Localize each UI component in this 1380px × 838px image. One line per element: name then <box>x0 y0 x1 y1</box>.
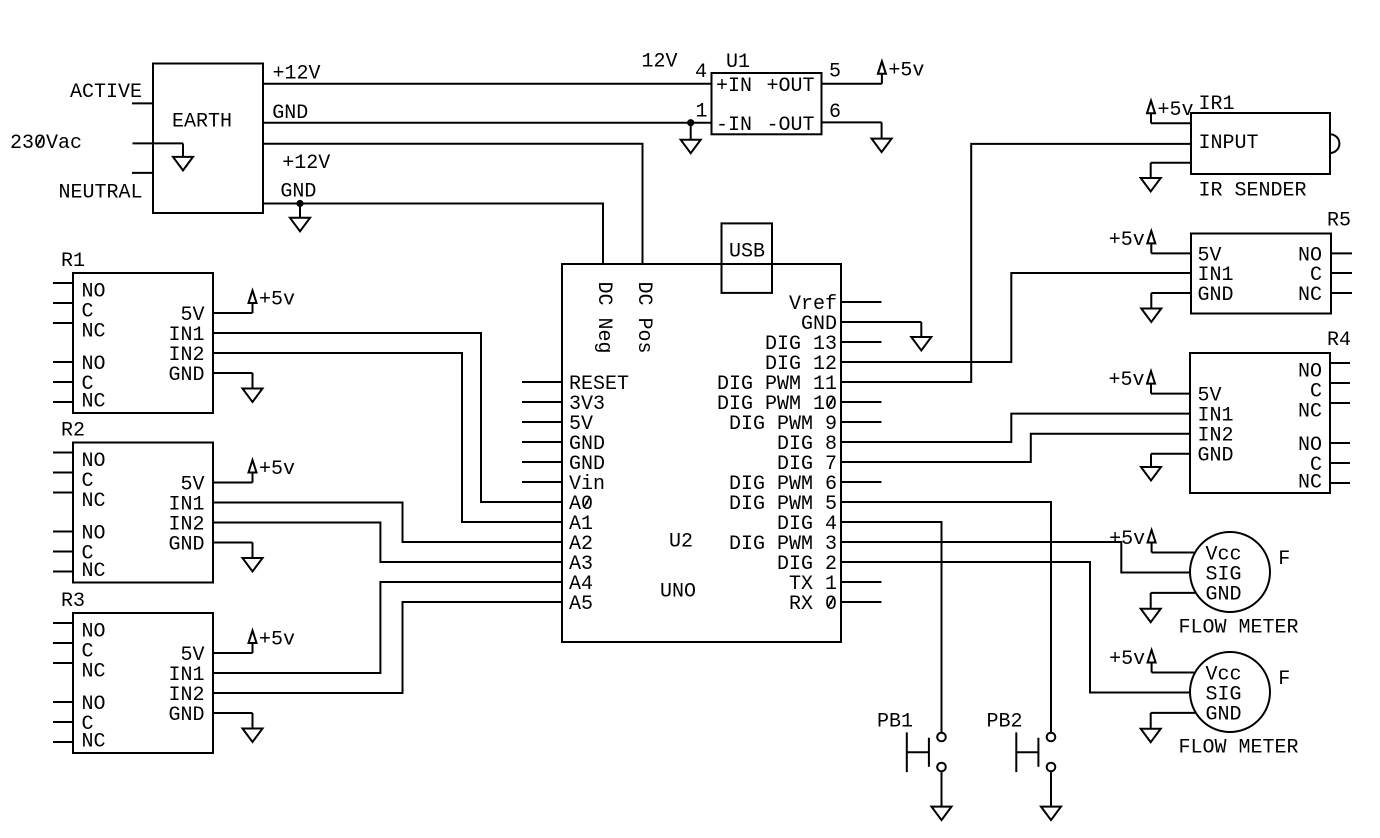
svg-text:U1: U1 <box>726 51 750 74</box>
ground (PB1) <box>932 807 952 821</box>
ground (inside EARTH) <box>173 143 193 170</box>
svg-text:NC: NC <box>82 321 106 344</box>
+5v supply (R2) <box>249 458 296 482</box>
svg-text:+5v: +5v <box>1109 648 1145 671</box>
ground (IR1) <box>1141 163 1161 192</box>
pin label GND <box>569 433 605 456</box>
label IR SENDER <box>1199 179 1307 202</box>
svg-text:+5v: +5v <box>1158 99 1194 122</box>
wire R2 GND <box>213 542 253 544</box>
label U2 <box>669 530 693 553</box>
wire DIG 4 to PB1 <box>882 522 942 732</box>
svg-text:5: 5 <box>829 61 841 84</box>
svg-text:+5v: +5v <box>1108 369 1144 392</box>
ground (U2 GND) <box>911 322 931 351</box>
+5v supply (R4) <box>1108 369 1155 393</box>
wire F2 Vcc <box>1152 672 1196 674</box>
pin stub DIG PWM 10 <box>841 401 882 403</box>
pin label DIG PWM 10 <box>717 393 837 416</box>
wire A5 to R3 IN2 <box>213 602 562 693</box>
pin label DIG PWM 6 <box>729 473 837 496</box>
svg-text:6: 6 <box>829 101 841 124</box>
ground (R3) <box>243 713 263 742</box>
wire PB1 to ground <box>941 772 943 806</box>
regulator U1 box <box>712 73 822 137</box>
wire U1 +OUT <box>822 83 882 85</box>
pin label Vin <box>569 473 605 496</box>
svg-text:-OUT: -OUT <box>766 114 814 137</box>
wire EARTH +12V to U2 DC Pos <box>263 144 643 264</box>
svg-text:+5v: +5v <box>888 59 924 82</box>
pin stub A3 <box>522 561 562 563</box>
+5v supply (R5) <box>1109 229 1156 253</box>
svg-text:+OUT: +OUT <box>766 75 814 98</box>
svg-text:R4: R4 <box>1327 329 1351 352</box>
pin stub GND <box>841 321 882 323</box>
wire A1 to R1 IN2 <box>213 353 562 522</box>
pin stub 3V3 <box>522 401 562 403</box>
pin stub GND <box>522 461 562 463</box>
wire DIG 8 to R4 IN1 <box>882 414 1191 442</box>
label PB1 <box>877 710 913 733</box>
IR sender IR1 box <box>1191 113 1339 174</box>
svg-text:GND: GND <box>168 533 204 556</box>
pin label DIG 2 <box>777 553 837 576</box>
pin label 5V <box>569 413 593 436</box>
label IR1 <box>1199 93 1235 116</box>
svg-text:A5: A5 <box>569 593 593 616</box>
pin label RESET <box>569 373 629 396</box>
svg-text:GND: GND <box>1198 284 1234 307</box>
label PB2 <box>986 710 1022 733</box>
wire F1 GND <box>1151 592 1196 594</box>
wire F2 GND <box>1151 712 1196 714</box>
svg-text:FLOW METER: FLOW METER <box>1179 736 1299 759</box>
power supply EARTH block <box>153 64 263 214</box>
ground (F2) <box>1141 713 1161 742</box>
pin number 6 <box>829 101 841 124</box>
pin stub DIG 8 <box>841 441 882 443</box>
svg-text:R1: R1 <box>61 250 85 273</box>
junction on GND wire <box>687 119 694 126</box>
wire R5 GND <box>1151 292 1191 294</box>
svg-text:GND: GND <box>168 704 204 727</box>
svg-text:U2: U2 <box>669 530 693 553</box>
wire DIG PWM 11 to IR1 INPUT <box>882 144 1192 382</box>
pin stub DIG 4 <box>841 521 882 523</box>
pin label DIG PWM 5 <box>729 493 837 516</box>
pin label A4 <box>569 573 593 596</box>
push button PB2 <box>1016 732 1055 772</box>
svg-text:1: 1 <box>695 100 707 123</box>
ground (R4) <box>1141 454 1161 481</box>
svg-text:NC: NC <box>82 490 106 513</box>
pin label DIG 7 <box>777 453 837 476</box>
relay module R3 <box>53 590 213 754</box>
svg-text:FLOW METER: FLOW METER <box>1179 616 1299 639</box>
relay module R4 <box>1190 329 1351 495</box>
+5v supply (R1) <box>249 289 296 313</box>
svg-text:-IN: -IN <box>716 114 752 137</box>
pin stub DIG 2 <box>841 561 882 563</box>
svg-text:+5v: +5v <box>1109 229 1145 252</box>
svg-text:USB: USB <box>729 241 765 264</box>
ground (F1) <box>1141 593 1161 622</box>
flow meter F2 <box>1190 652 1270 732</box>
relay module R2 <box>53 419 213 583</box>
pin ACTIVE stub <box>132 102 153 104</box>
pin number 5 <box>829 61 841 84</box>
flow meter F1 <box>1190 532 1270 612</box>
pin stub DIG PWM 3 <box>841 541 882 543</box>
pin stub A0 <box>522 501 562 503</box>
label ACTIVE <box>70 81 142 104</box>
pin stub DIG PWM 9 <box>841 421 882 423</box>
wire R5 5V <box>1151 252 1191 254</box>
USB connector box <box>722 223 773 293</box>
label F (F1) <box>1278 548 1290 571</box>
wire A4 to R3 IN1 <box>213 582 562 673</box>
microcontroller U2 box <box>562 264 841 642</box>
wire PB2 to ground <box>1050 772 1052 806</box>
+5v supply (IR1) <box>1147 99 1194 123</box>
label DC Neg (rotated) <box>592 282 615 354</box>
svg-text:4: 4 <box>695 61 707 84</box>
wire DIG 7 to R4 IN2 <box>882 434 1191 462</box>
wire A2 to R2 IN1 <box>213 503 562 543</box>
ground (R2) <box>243 543 263 572</box>
pin stub RX 0 <box>841 601 882 603</box>
svg-text:F: F <box>1278 548 1290 571</box>
wire DIG 12 to R5 IN1 <box>882 273 1192 362</box>
pin number 1 <box>695 100 707 123</box>
wire DIG PWM 3 to flow meter 1 SIG <box>882 542 1191 573</box>
+5v supply (U1 output) <box>878 59 925 83</box>
label GND (upper) <box>272 102 308 125</box>
svg-text:PB2: PB2 <box>986 710 1022 733</box>
ground (U1 -OUT) <box>872 122 892 152</box>
pin stub GND <box>522 441 562 443</box>
wire R4 5V <box>1151 393 1190 395</box>
svg-text:+IN: +IN <box>716 75 752 98</box>
label U1 <box>726 51 750 74</box>
pin label Vref <box>789 293 837 316</box>
label FLOW METER (F2) <box>1179 736 1299 759</box>
slashed zero marks <box>37 136 834 607</box>
svg-text:PB1: PB1 <box>877 710 913 733</box>
pin stub A1 <box>522 521 562 523</box>
pin label DIG 13 <box>765 333 837 356</box>
svg-text:NC: NC <box>1298 401 1322 424</box>
ground (below EARTH) <box>290 204 310 232</box>
pin label DIG PWM 3 <box>729 533 837 556</box>
svg-text:ACTIVE: ACTIVE <box>70 81 142 104</box>
wire DIG 2 to flow meter 2 SIG <box>882 562 1191 693</box>
+5v supply (F1) <box>1109 528 1156 552</box>
wire R1 GND <box>213 372 253 374</box>
pin stub A2 <box>522 541 562 543</box>
pin label A1 <box>569 513 593 536</box>
svg-text:DC Pos: DC Pos <box>632 282 655 354</box>
label UNO <box>660 581 696 604</box>
svg-text:NC: NC <box>1298 284 1322 307</box>
svg-text:IR SENDER: IR SENDER <box>1199 179 1307 202</box>
pin label A2 <box>569 533 593 556</box>
label FLOW METER (F1) <box>1179 616 1299 639</box>
pin stub DIG 12 <box>841 361 882 363</box>
pin 230Vac stub <box>133 142 184 144</box>
svg-text:UNO: UNO <box>660 581 696 604</box>
svg-text:GND: GND <box>1206 583 1242 606</box>
ground (R5) <box>1141 293 1161 322</box>
pin label RX 0 <box>789 593 837 616</box>
pin stub DIG PWM 6 <box>841 481 882 483</box>
svg-text:IR1: IR1 <box>1199 93 1235 116</box>
pin stub DIG PWM 5 <box>841 501 882 503</box>
pin label DIG 4 <box>777 513 837 536</box>
svg-text:INPUT: INPUT <box>1199 132 1259 155</box>
wire R4 GND <box>1151 453 1190 455</box>
svg-text:NC: NC <box>82 730 106 753</box>
pin number 4 <box>695 61 707 84</box>
pin stub Vin <box>522 481 562 483</box>
pin label DIG 12 <box>765 353 837 376</box>
svg-text:+5v: +5v <box>1109 528 1145 551</box>
wire R3 5V <box>213 652 253 654</box>
wire R3 GND <box>213 712 253 714</box>
ground (at U1 -IN) <box>681 123 701 154</box>
pin label TX 1 <box>789 573 837 596</box>
wire U2 GND right <box>882 321 922 323</box>
pin stub DIG PWM 11 <box>841 381 882 383</box>
pin label A5 <box>569 593 593 616</box>
pin stub DIG 7 <box>841 461 882 463</box>
wire EARTH GND to U1 -IN <box>263 122 712 124</box>
svg-text:DC Neg: DC Neg <box>592 282 615 354</box>
label +12V (top) <box>273 63 321 86</box>
wire IR1 GND pin <box>1151 162 1191 164</box>
wire A3 to R2 IN2 <box>213 523 562 563</box>
svg-text:+5v: +5v <box>259 458 295 481</box>
svg-text:R2: R2 <box>61 419 85 442</box>
svg-text:230Vac: 230Vac <box>10 132 82 155</box>
pin label DIG 8 <box>777 433 837 456</box>
label 230Vac <box>10 132 82 155</box>
pin label GND <box>569 453 605 476</box>
label F (F2) <box>1278 668 1290 691</box>
pin label A0 <box>569 493 593 516</box>
wire R2 5V <box>213 482 253 484</box>
svg-text:12V: 12V <box>642 51 678 74</box>
wire U1 -OUT <box>822 121 882 123</box>
svg-text:GND: GND <box>1198 445 1234 468</box>
svg-text:+5v: +5v <box>259 289 295 312</box>
svg-text:NC: NC <box>1298 471 1322 494</box>
wire EARTH GND to U2 DC Neg <box>263 204 603 265</box>
junction on lower GND wire <box>296 200 303 207</box>
svg-text:NC: NC <box>82 661 106 684</box>
relay module R1 <box>53 250 213 414</box>
ground (PB2) <box>1041 807 1061 821</box>
pin NEUTRAL stub <box>132 172 153 174</box>
svg-text:GND: GND <box>272 102 308 125</box>
svg-text:NC: NC <box>82 390 106 413</box>
pin stub 5V <box>522 421 562 423</box>
label GND (lower) <box>280 181 316 204</box>
svg-text:NC: NC <box>82 560 106 583</box>
svg-text:GND: GND <box>1206 703 1242 726</box>
wire R1 5V <box>213 312 253 314</box>
pin label DIG PWM 11 <box>717 373 837 396</box>
+5v supply (R3) <box>249 629 296 653</box>
wire EARTH +12V to U1 +IN <box>263 83 712 85</box>
svg-text:GND: GND <box>280 181 316 204</box>
label NEUTRAL <box>58 182 142 205</box>
pin label DIG PWM 9 <box>729 413 837 436</box>
svg-text:+5v: +5v <box>259 629 295 652</box>
pin stub A4 <box>522 581 562 583</box>
wire DIG PWM 5 to PB2 <box>882 502 1052 732</box>
wire IR1 +5v pin <box>1151 122 1191 124</box>
pin label A3 <box>569 553 593 576</box>
pin stub Vref <box>841 301 882 303</box>
pin label GND <box>801 313 837 336</box>
wire F1 Vcc <box>1152 552 1196 554</box>
svg-text:F: F <box>1278 668 1290 691</box>
wire A0 to R1 IN1 <box>213 333 562 502</box>
pin stub DIG 13 <box>841 341 882 343</box>
svg-text:R5: R5 <box>1327 210 1351 233</box>
svg-text:EARTH: EARTH <box>172 110 232 133</box>
ground (R1) <box>243 373 263 402</box>
svg-text:+12V: +12V <box>273 63 321 86</box>
label 12V <box>642 51 678 74</box>
svg-text:GND: GND <box>168 364 204 387</box>
pin label 3V3 <box>569 393 605 416</box>
relay module R5 <box>1191 210 1352 314</box>
push button PB1 <box>907 732 946 772</box>
label +12V (lower) <box>282 152 330 175</box>
+5v supply (F2) <box>1109 648 1156 672</box>
svg-text:NEUTRAL: NEUTRAL <box>58 182 142 205</box>
pin stub RESET <box>522 381 562 383</box>
pin stub A5 <box>522 601 562 603</box>
pin stub TX 1 <box>841 581 882 583</box>
label DC Pos (rotated) <box>632 282 655 354</box>
svg-text:R3: R3 <box>61 590 85 613</box>
svg-text:+12V: +12V <box>282 152 330 175</box>
